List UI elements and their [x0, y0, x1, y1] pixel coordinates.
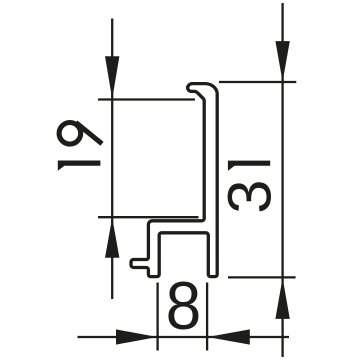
svg-text:8: 8 — [166, 267, 202, 343]
profile outline (aluminium extrusion cross-section) — [131, 84, 217, 277]
dimension 31: bottom arrow (points up) — [275, 278, 289, 319]
dimension 31: top extension line — [219, 81, 296, 83]
svg-text:3: 3 — [215, 180, 284, 214]
dimension 31: top arrow (points down) — [275, 41, 289, 82]
dimension 8: right arrow (points left) — [207, 329, 249, 344]
dimension 19: label — [59, 123, 81, 145]
dimension 19: top extension line — [98, 98, 195, 100]
dimension 19: top arrow (points down) — [105, 56, 119, 99]
dimension 8: left arrow (points right) — [116, 329, 157, 344]
dimension 8: left extension line — [156, 283, 158, 351]
dimension 8: horizontal dimension line — [78, 336, 290, 338]
dimension 19: vertical dimension line — [111, 19, 113, 300]
dimension 8: right extension line — [206, 283, 208, 351]
dimension 31: bottom extension line — [228, 276, 296, 278]
dimension 19: bottom extension line — [98, 216, 199, 218]
dimension 19: bottom arrow (points up) — [105, 217, 119, 257]
dimension 31: vertical dimension line — [281, 3, 283, 357]
